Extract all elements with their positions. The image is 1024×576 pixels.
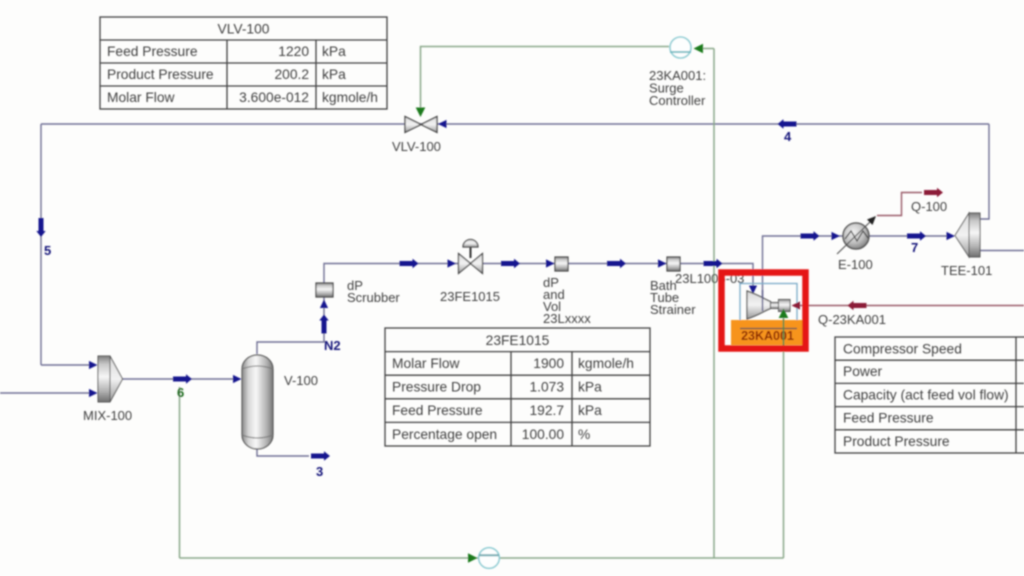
- svg-text:Product Pressure: Product Pressure: [107, 67, 214, 82]
- svg-text:Molar Flow: Molar Flow: [392, 356, 459, 371]
- wire stream 6 mixer to vessel: [122, 378, 240, 380]
- arrow thick main line 4: [704, 259, 723, 268]
- svg-text:23FE1015: 23FE1015: [440, 289, 500, 304]
- mixer MIX-100: [98, 356, 123, 402]
- svg-text:kgmole/h: kgmole/h: [322, 90, 378, 105]
- valve 23FE1015 with actuator: [459, 240, 483, 274]
- wire feed into mixer bottom: [0, 392, 96, 394]
- svg-text:1900: 1900: [533, 356, 564, 371]
- table compressor right: [835, 337, 1024, 453]
- svg-text:192.7: 192.7: [529, 403, 564, 418]
- arrow into E-100: [832, 232, 841, 240]
- bath tube strainer box: [667, 257, 680, 271]
- svg-text:Q-23KA001: Q-23KA001: [818, 312, 886, 327]
- wire green signal from riser into surge controller: [702, 48, 714, 50]
- svg-text:Scrubber: Scrubber: [347, 290, 400, 305]
- wire stream 4 recycle top horizontal: [41, 123, 989, 125]
- svg-text:3: 3: [316, 464, 323, 479]
- arrow thick compressor to E-100: [801, 231, 820, 240]
- arrow into dP Vol box: [546, 259, 555, 267]
- arrow green left into surge controller: [694, 44, 704, 54]
- wire tee top outlet to recycle: [976, 124, 989, 219]
- controller 23KA001 surge controller circle: [670, 37, 691, 58]
- arrow small up into scrubber: [320, 300, 328, 309]
- arrow into mixer top inlet: [89, 361, 98, 369]
- wire green vertical to compressor: [783, 318, 785, 558]
- svg-text:Percentage open: Percentage open: [392, 427, 497, 442]
- dP and Vol box: [555, 257, 568, 271]
- svg-text:kPa: kPa: [578, 403, 602, 418]
- tee TEE-101: [955, 213, 980, 257]
- table 23FE1015: [385, 328, 650, 446]
- compressor 23KA001: [747, 291, 790, 319]
- svg-text:100.00: 100.00: [522, 427, 565, 442]
- svg-text:VLV-100: VLV-100: [392, 139, 441, 154]
- arrow thick Q-100: [924, 188, 943, 197]
- wire stream 5 into mixer: [41, 364, 96, 366]
- arrow into valve VLV-100: [438, 120, 447, 128]
- vessel V-100: [242, 355, 273, 449]
- arrow thick stream 4 left: [778, 119, 797, 128]
- wire green bottom horizontal: [180, 557, 784, 559]
- arrow green up into compressor overlay: [779, 309, 789, 319]
- selection box bottom dark line: [740, 328, 797, 330]
- wire stream 3 vessel bottom: [257, 448, 309, 456]
- arrow green down into valve: [416, 108, 426, 118]
- arrow down into compressor: [749, 286, 757, 295]
- arrow into vessel V-100: [233, 375, 242, 383]
- table VLV-100: [100, 17, 387, 109]
- arrow into mixer bottom inlet: [89, 389, 98, 397]
- svg-text:kgmole/h: kgmole/h: [578, 356, 634, 371]
- wire green signal to VLV-100: [421, 47, 670, 113]
- svg-text:6: 6: [177, 385, 184, 400]
- svg-text:V-100: V-100: [284, 373, 318, 388]
- arrow thick stream 5 down: [36, 218, 45, 237]
- svg-text:Strainer: Strainer: [650, 302, 696, 317]
- arrow into valve 23FE1015: [448, 259, 457, 267]
- wire N2 vessel top: [257, 297, 324, 354]
- svg-text:Feed Pressure: Feed Pressure: [392, 403, 483, 418]
- wire main process line scrubber to compressor: [324, 264, 753, 293]
- svg-text:Feed Pressure: Feed Pressure: [107, 44, 198, 59]
- vessel seam lines: [242, 366, 273, 369]
- svg-text:VLV-100: VLV-100: [218, 22, 270, 37]
- arrow thick N2 up: [319, 315, 328, 334]
- selection box around compressor: [740, 284, 797, 329]
- controller bottom circle: [479, 548, 500, 569]
- svg-text:Product Pressure: Product Pressure: [843, 434, 950, 449]
- heat exchanger E-100: [837, 216, 876, 254]
- svg-text:E-100: E-100: [838, 257, 873, 272]
- arrow green right at bottom controller: [468, 553, 478, 563]
- arrow thick main line 1: [400, 259, 419, 268]
- svg-text:1.073: 1.073: [529, 380, 564, 395]
- valve VLV-100: [405, 117, 437, 133]
- wire discharge overlay on cone: [762, 290, 764, 311]
- svg-text:5: 5: [44, 243, 51, 258]
- arrow Q-23KA001 into compressor: [792, 301, 801, 309]
- svg-text:Q-100: Q-100: [911, 199, 947, 214]
- arrow thick stream 6: [173, 374, 192, 383]
- wire compressor discharge to tee: [763, 236, 948, 298]
- svg-text:Molar Flow: Molar Flow: [107, 90, 174, 105]
- svg-text:MIX-100: MIX-100: [83, 408, 132, 423]
- svg-text:1220: 1220: [278, 44, 309, 59]
- arrow into TEE-101: [947, 232, 956, 240]
- arrow thick main line 2: [501, 259, 520, 268]
- svg-text:23KA001: 23KA001: [741, 329, 794, 343]
- svg-text:Feed Pressure: Feed Pressure: [843, 411, 934, 426]
- wire green riser right: [713, 49, 715, 559]
- svg-text:TEE-101: TEE-101: [941, 263, 992, 278]
- wire green left vertical from stream 6: [179, 387, 181, 558]
- svg-text:%: %: [578, 427, 590, 442]
- svg-text:kPa: kPa: [322, 44, 346, 59]
- arrow into strainer: [658, 259, 667, 267]
- wire stream 5 left vertical: [40, 124, 42, 365]
- orange label box 23KA001: [731, 320, 804, 345]
- svg-text:3.600e-012: 3.600e-012: [239, 90, 309, 105]
- red highlight box: [722, 273, 806, 349]
- arrow thick Q-23KA001: [848, 301, 867, 310]
- dP scrubber box: [316, 283, 333, 297]
- svg-text:Pressure Drop: Pressure Drop: [392, 380, 481, 395]
- wire Q-23KA001 energy: [798, 305, 1024, 307]
- svg-text:kPa: kPa: [322, 67, 346, 82]
- svg-text:kPa: kPa: [578, 380, 602, 395]
- svg-text:N2: N2: [324, 338, 341, 353]
- wire tee right outlet: [980, 250, 1024, 252]
- svg-text:Controller: Controller: [649, 93, 706, 108]
- arrow thick main line 3: [607, 259, 626, 268]
- svg-text:200.2: 200.2: [274, 67, 309, 82]
- arrow thick stream 7: [907, 231, 926, 240]
- svg-text:Power: Power: [843, 364, 883, 379]
- svg-text:4: 4: [784, 129, 792, 144]
- svg-text:Capacity (act feed vol flow): Capacity (act feed vol flow): [843, 387, 1009, 402]
- wire green overlay over orange label: [783, 319, 785, 347]
- svg-text:23Lxxxx: 23Lxxxx: [543, 311, 591, 326]
- svg-text:7: 7: [911, 240, 918, 255]
- wire Q-100 energy: [877, 193, 922, 216]
- svg-text:23FE1015: 23FE1015: [486, 333, 550, 348]
- arrow thick stream 3: [311, 451, 330, 460]
- svg-text:Compressor Speed: Compressor Speed: [843, 342, 962, 357]
